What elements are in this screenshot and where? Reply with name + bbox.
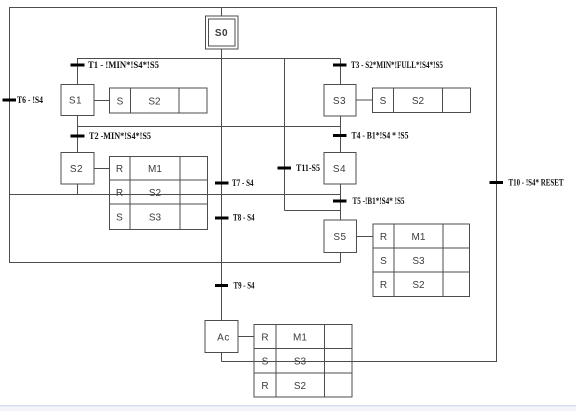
svg-text:S2: S2 <box>412 280 425 291</box>
wire center vertical V3 below Ac <box>221 353 223 362</box>
svg-text:T8 - S4: T8 - S4 <box>233 213 255 223</box>
svg-text:R: R <box>380 232 387 243</box>
svg-text:R: R <box>261 381 268 392</box>
wire right frame V6 <box>496 8 498 362</box>
svg-text:M1: M1 <box>412 232 426 243</box>
wire branch2 vertical V5 mid1 <box>340 116 342 153</box>
svg-text:T1 - !MIN*!S4*!S5: T1 - !MIN*!S4*!S5 <box>88 60 159 70</box>
svg-text:T9 - S4: T9 - S4 <box>234 281 255 291</box>
step S5 box <box>324 220 357 253</box>
svg-text:S2: S2 <box>70 164 83 175</box>
svg-text:S: S <box>380 256 387 267</box>
wire branch2 vertical V5 upper <box>340 59 342 85</box>
step Ac box <box>205 321 238 353</box>
wire bottom return H6 <box>222 361 498 363</box>
step S2 box <box>61 153 94 185</box>
wire Ac to action box <box>238 336 254 338</box>
svg-text:S2: S2 <box>294 381 307 392</box>
svg-text:S3: S3 <box>294 357 307 368</box>
svg-text:S4: S4 <box>333 164 346 175</box>
svg-text:T6 - !S4: T6 - !S4 <box>17 95 43 105</box>
svg-text:T3 - S2*MIN*!FULL*!S4*!S5: T3 - S2*MIN*!FULL*!S4*!S5 <box>351 60 443 70</box>
transition T5 bar <box>333 200 347 203</box>
wire S3 to action box <box>356 99 373 101</box>
svg-text:T5 -!B1*!S4* !S5: T5 -!B1*!S4* !S5 <box>353 196 405 206</box>
action box A3 of S3 <box>373 88 471 113</box>
transition T11 bar <box>278 167 292 170</box>
wire center vertical V3 above S0 <box>221 8 223 17</box>
wire left frame V1 <box>9 8 11 263</box>
wire branch1 vertical V2 lower <box>77 184 79 195</box>
wire T11 vertical V4 <box>284 59 286 211</box>
svg-text:S: S <box>117 97 124 108</box>
svg-text:Ac: Ac <box>217 333 230 344</box>
svg-text:S2: S2 <box>412 96 425 107</box>
svg-text:S: S <box>380 96 387 107</box>
step S1 box <box>61 85 94 116</box>
wire branch2 vertical V5 lower <box>340 253 342 263</box>
step S0 initial (double box) <box>206 16 239 49</box>
wire merge line H4 <box>9 194 341 196</box>
wire merge line H3 <box>78 126 341 128</box>
svg-text:S3: S3 <box>149 213 162 224</box>
transition T7 bar <box>215 182 229 185</box>
svg-text:T4 - B1*!S4 * !S5: T4 - B1*!S4 * !S5 <box>352 131 409 141</box>
svg-text:S: S <box>116 213 123 224</box>
transition T3 bar <box>333 64 347 67</box>
action box A6 of Ac <box>254 325 352 398</box>
svg-text:R: R <box>116 164 123 175</box>
wire merge line H5 <box>9 262 341 264</box>
svg-text:S3: S3 <box>412 256 425 267</box>
wire S2 to action box <box>94 168 110 170</box>
svg-text:T10 - !S4* RESET: T10 - !S4* RESET <box>509 178 564 188</box>
transition T10 bar <box>490 181 504 184</box>
transition T8 bar <box>215 217 229 220</box>
svg-text:S5: S5 <box>333 232 346 243</box>
wire top frame H1 <box>9 7 497 9</box>
transition T1 bar <box>71 64 85 67</box>
action box A1 of S1 <box>110 88 208 113</box>
svg-text:R: R <box>116 188 123 199</box>
wire T11 branch join H7 <box>285 210 341 212</box>
svg-text:T2 -MIN*!S4*!S5: T2 -MIN*!S4*!S5 <box>89 131 151 141</box>
step S4 box <box>324 153 356 185</box>
wire branch1 vertical V2 upper <box>77 59 79 85</box>
svg-text:R: R <box>380 280 387 291</box>
svg-text:S: S <box>262 357 269 368</box>
transition T9 bar <box>215 284 228 287</box>
bottom window band <box>0 405 576 407</box>
svg-text:S2: S2 <box>148 97 161 108</box>
svg-text:S1: S1 <box>69 96 82 107</box>
svg-text:S0: S0 <box>215 28 228 39</box>
transition T4 bar <box>333 134 347 137</box>
svg-text:S3: S3 <box>333 96 346 107</box>
svg-text:R: R <box>261 333 268 344</box>
svg-text:T7 - S4: T7 - S4 <box>232 178 254 188</box>
wire branch1 vertical V2 middle <box>77 116 79 153</box>
svg-text:M1: M1 <box>148 164 162 175</box>
action box A2 of S2 <box>110 157 208 230</box>
wire fork line H2 <box>77 58 341 60</box>
svg-text:T11-S5: T11-S5 <box>296 163 320 173</box>
wire branch2 vertical V5 mid2 <box>340 184 342 220</box>
wire S5 to action box <box>357 236 374 238</box>
svg-text:S2: S2 <box>149 188 162 199</box>
transition T6 bar <box>3 99 17 102</box>
step S3 box <box>324 85 356 117</box>
transition T2 bar <box>71 135 85 138</box>
svg-text:M1: M1 <box>293 333 307 344</box>
wire S1 to action box <box>94 100 110 102</box>
action box A5 of S5 <box>373 224 470 297</box>
wire center vertical V3 main <box>221 49 223 321</box>
